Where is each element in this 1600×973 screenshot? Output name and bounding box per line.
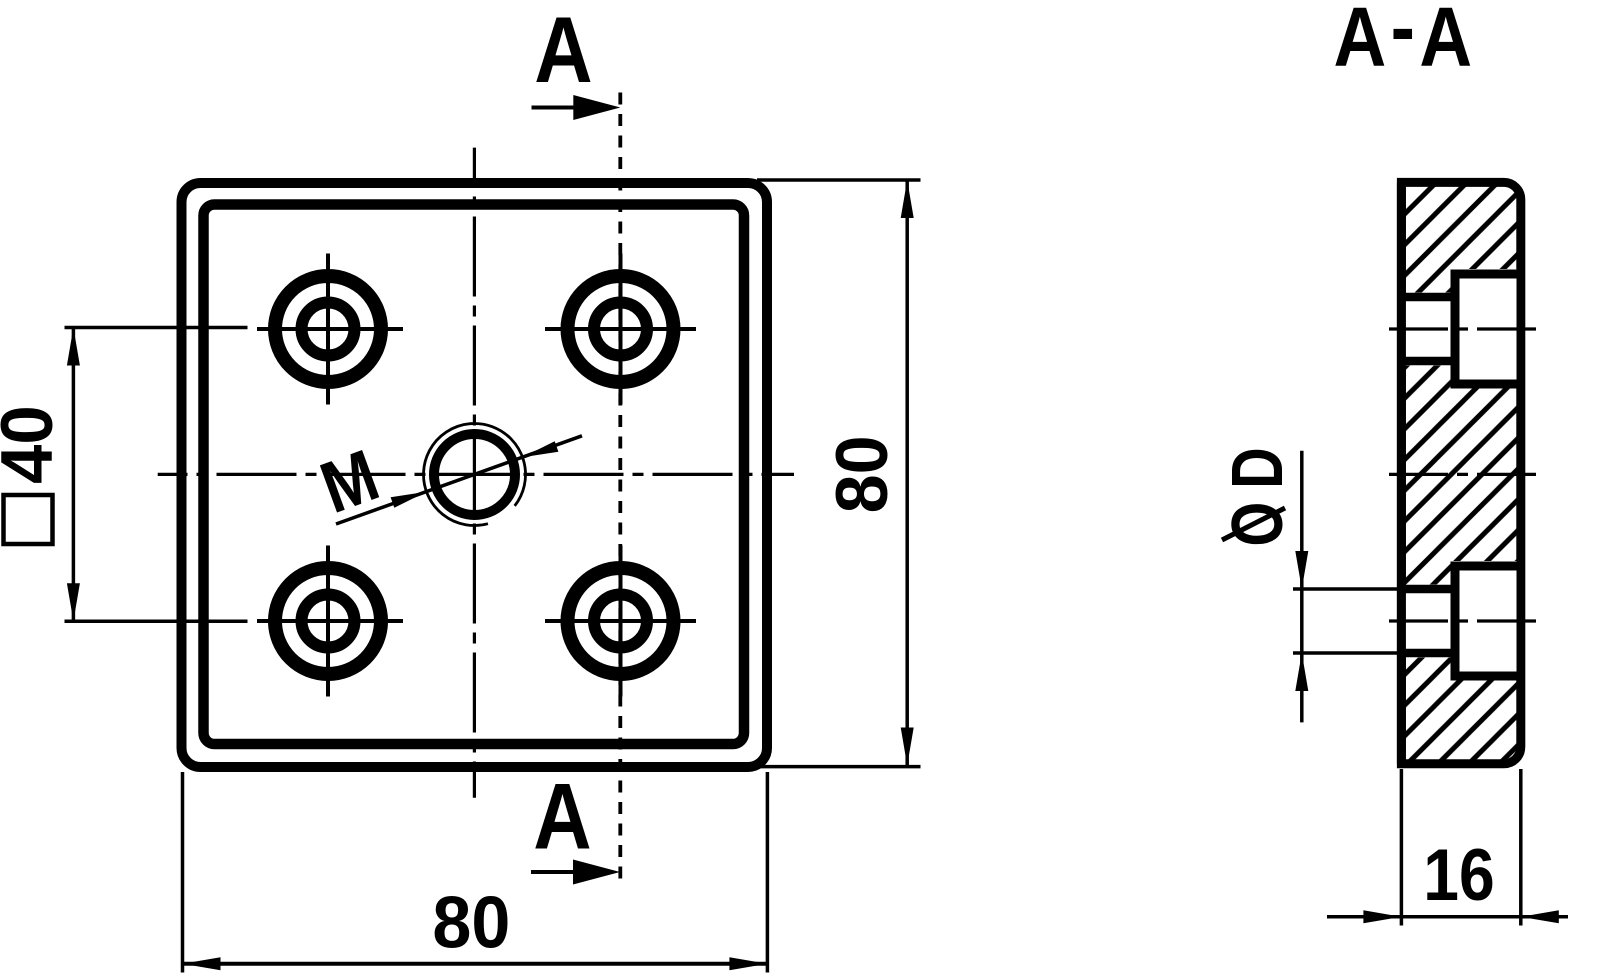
- section arrow bottom: line: [531, 870, 576, 874]
- top counterbore bottom line: [1451, 380, 1517, 389]
- svg-text:D: D: [1217, 447, 1298, 489]
- bottom counterbore bottom line: [1451, 672, 1517, 681]
- hole top-right: bore circle: [594, 303, 647, 356]
- dimension OD: arrowhead down: [1295, 551, 1308, 589]
- bottom counterbore white pocket: [1451, 561, 1517, 680]
- hole top-right: counterbore circle: [568, 276, 674, 382]
- svg-text:40: 40: [0, 405, 68, 484]
- top through-hole slot bottom line: [1399, 357, 1457, 366]
- dimension 16: extension line left: [1400, 769, 1404, 926]
- plate outer edge (rounded square 80x80): [182, 183, 768, 767]
- hole bottom-right: crosshair: [545, 546, 696, 697]
- section slab outline with hatch fill: [1401, 182, 1520, 763]
- bottom counterbore top line: [1451, 562, 1517, 571]
- svg-text:80: 80: [822, 435, 904, 513]
- extension line top hole row left: [65, 326, 248, 330]
- hole bottom-left: crosshair: [257, 546, 403, 697]
- dimension OD: text: [1217, 447, 1298, 546]
- thread size label M: [310, 434, 388, 529]
- dimension 80 right: arrowhead up: [901, 180, 914, 218]
- hole bottom-left: bore circle: [302, 595, 355, 648]
- dimension 16: dimension line: [1327, 915, 1568, 919]
- dimension 80 bottom: arrowhead right: [729, 957, 767, 970]
- section title A-A: [1334, 0, 1477, 84]
- svg-text:A: A: [533, 764, 591, 869]
- section arrow top: head: [573, 95, 620, 120]
- dimension 80 bottom: extension line left: [181, 772, 185, 973]
- dimension 80 right: extension line top: [757, 178, 921, 182]
- top counterbore top line: [1451, 270, 1517, 279]
- hole top-left: crosshair: [257, 254, 403, 405]
- dimension 80 bottom: text: [432, 882, 510, 964]
- dimension 80 bottom: dimension line: [183, 962, 768, 966]
- dimension square-40: text 40: [0, 405, 68, 484]
- section arrow top: line: [532, 106, 578, 110]
- thread leader line M: [336, 436, 582, 524]
- dimension OD: extension line bottom: [1293, 651, 1398, 655]
- thread leader arrowhead lower: [391, 492, 427, 508]
- dimension 16: arrowhead right: [1363, 910, 1401, 923]
- dimension 80 bottom: arrowhead left: [183, 957, 221, 970]
- dimension OD: dimension line: [1300, 451, 1304, 723]
- dimension 16: text: [1423, 834, 1494, 916]
- dimension square-40: arrowhead up: [67, 328, 80, 366]
- section arrow bottom: head: [573, 860, 620, 885]
- svg-text:80: 80: [432, 882, 510, 964]
- dimension square-40: arrowhead down: [67, 583, 80, 621]
- center hole thread arc: [424, 423, 526, 525]
- hole top-left: bore circle: [302, 303, 355, 356]
- dimension 80 bottom: extension line right: [766, 772, 770, 973]
- dimension 80 right: dimension line: [905, 180, 909, 766]
- svg-text:A-A: A-A: [1334, 0, 1477, 84]
- dimension OD: extension line top: [1293, 587, 1398, 591]
- svg-text:16: 16: [1423, 834, 1494, 916]
- section centerline middle: [1389, 473, 1538, 476]
- dimension OD: diameter slash through O: [1222, 508, 1285, 540]
- bottom counterbore wall: [1451, 562, 1460, 680]
- bottom through-hole white slot: [1406, 585, 1451, 658]
- center hole circle: [434, 434, 515, 515]
- vertical main centerline: [473, 148, 476, 798]
- dimension 80 right: arrowhead down: [901, 728, 914, 766]
- hole bottom-right: counterbore circle: [568, 568, 674, 674]
- hole top-right: crosshair: [545, 254, 696, 405]
- section label A bottom: [533, 764, 591, 869]
- extension line bottom hole row left: [65, 620, 248, 624]
- thread leader arrowhead upper: [523, 441, 559, 457]
- horizontal main centerline: [158, 473, 794, 476]
- hole top-left: counterbore circle: [275, 276, 381, 382]
- hole bottom-right: bore circle: [594, 595, 647, 648]
- redraw slab left edge over slots: [1397, 182, 1406, 763]
- top through-hole white slot: [1406, 293, 1451, 366]
- section cutting line A-A (dashed): [618, 93, 622, 888]
- top counterbore white pocket: [1451, 269, 1517, 388]
- plate inner edge (chamfer line): [204, 205, 745, 745]
- svg-text:A: A: [534, 0, 592, 102]
- section centerline top hole row: [1389, 327, 1538, 330]
- top counterbore wall: [1451, 270, 1460, 388]
- dimension 16: extension line right: [1519, 769, 1523, 926]
- dimension 80 right: text: [822, 435, 904, 513]
- section label A top: [534, 0, 592, 102]
- dimension 80 right: extension line bottom: [757, 765, 921, 769]
- bottom through-hole slot top line: [1399, 585, 1457, 594]
- dimension OD: arrowhead up: [1295, 653, 1308, 691]
- dimension square-40: dimension line: [72, 328, 76, 622]
- section centerline bottom hole row: [1389, 619, 1538, 622]
- top through-hole slot top line: [1399, 293, 1457, 302]
- bottom through-hole slot bottom line: [1399, 649, 1457, 658]
- dimension square-40: square symbol: [4, 495, 53, 544]
- hole bottom-left: counterbore circle: [275, 568, 381, 674]
- dimension 16: arrowhead left: [1521, 910, 1559, 923]
